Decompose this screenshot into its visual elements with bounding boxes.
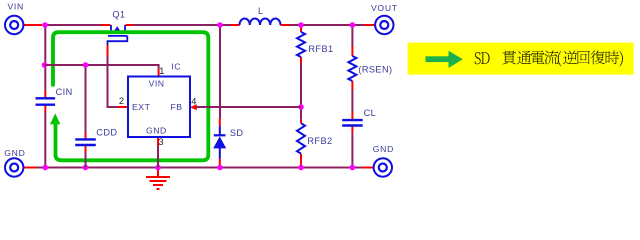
wire IC pin1 stub <box>158 69 160 77</box>
node VOUT RSEN junction <box>350 22 356 28</box>
svg-text:GND: GND <box>4 148 25 158</box>
label text glyph kanji <box>606 51 619 65</box>
svg-text:(RSEN): (RSEN) <box>358 65 392 75</box>
callout text D <box>481 52 490 64</box>
label text glyph paren-open <box>558 51 561 67</box>
label text glyph kanji <box>544 51 558 65</box>
diode SD <box>213 126 226 159</box>
wire IC ground redraw over loop <box>157 150 159 168</box>
wire bottom ground rail <box>36 167 362 169</box>
wire IC GND to bottom rail <box>157 146 159 168</box>
inductor L <box>240 18 281 25</box>
wire top rail Q1 to L <box>133 24 231 26</box>
node CDD tap junction <box>83 62 89 68</box>
svg-text:3: 3 <box>158 137 163 147</box>
resistor RSEN <box>348 56 356 81</box>
wire RSEN top stub <box>351 46 353 56</box>
svg-text:GND: GND <box>146 125 167 135</box>
wire CIN top stub <box>44 91 46 98</box>
pin 4 arrow into FB <box>190 104 197 110</box>
op-amp U1 IC body <box>128 77 190 138</box>
node ground CL junction <box>350 165 356 171</box>
svg-text:FB: FB <box>171 102 183 112</box>
wire CDD to bottom rail <box>85 153 87 168</box>
wire VIN feed redraw over loop <box>45 64 71 66</box>
wire RFB1 top stub <box>300 25 302 32</box>
svg-text:2: 2 <box>119 96 124 106</box>
node IC VIN tap junction <box>42 62 48 68</box>
wire FB net redraw over loop <box>196 106 301 108</box>
svg-text:RFB2: RFB2 <box>307 136 332 146</box>
current loop highlight <box>53 32 208 160</box>
label text glyph kanji <box>578 51 590 64</box>
capacitor CDD <box>75 139 96 145</box>
terminal VOUT <box>375 16 393 34</box>
callout text S <box>475 52 481 64</box>
label text glyph kanji <box>531 51 545 64</box>
node ground CDD junction <box>83 165 89 171</box>
label text glyph kanji <box>591 50 605 64</box>
svg-text:VOUT: VOUT <box>371 3 398 13</box>
svg-text:IC: IC <box>171 62 181 72</box>
label text glyph kanji <box>563 50 577 64</box>
callout kanji text <box>502 50 623 66</box>
wire Q1 drain stub <box>126 24 134 26</box>
label text glyph paren-close <box>619 51 622 67</box>
wire RSEN branch from output node <box>351 25 353 46</box>
wire IC VIN feed horizontal <box>45 65 159 69</box>
wire top rail L to VOUT <box>290 24 364 26</box>
svg-text:EXT: EXT <box>132 102 151 112</box>
wire diode cathode stub <box>219 118 221 126</box>
wire IC pin3 stub <box>157 137 159 146</box>
wire VOUT stub <box>364 24 375 26</box>
svg-text:VIN: VIN <box>149 78 165 88</box>
wire L right stub <box>281 24 291 26</box>
capacitor CIN <box>36 98 56 104</box>
svg-text:1: 1 <box>159 66 164 76</box>
wire RSEN to CL <box>351 90 353 112</box>
node ground diode junction <box>217 165 223 171</box>
transistor Q1 <box>108 25 129 45</box>
node ground RFB2 junction <box>298 165 304 171</box>
wire CL bottom stub <box>351 126 353 133</box>
wire RFB2 top stub <box>300 120 302 124</box>
wire RFB1 bottom stub <box>300 57 302 64</box>
wire FB net horizontal <box>196 106 302 108</box>
node ground CIN junction <box>43 165 49 171</box>
node switch diode junction <box>217 22 223 28</box>
wire Q1 source stub <box>101 24 111 26</box>
resistor RFB2 <box>297 123 305 153</box>
terminal VIN <box>5 16 23 34</box>
svg-text:GND: GND <box>373 144 394 154</box>
svg-text:Q1: Q1 <box>112 10 125 20</box>
wire RFB2 bottom stub <box>300 154 302 168</box>
wire CIN to bottom rail <box>44 112 46 168</box>
callout yellow box <box>408 43 634 75</box>
wire diode anode stub <box>219 159 221 168</box>
svg-text:4: 4 <box>191 97 196 107</box>
node ground IC junction <box>155 165 161 171</box>
wire CDD bottom stub <box>85 146 87 153</box>
capacitor CL <box>342 120 363 125</box>
wire CIN bottom stub <box>44 105 46 112</box>
wire top rail junction to Q1 <box>44 24 111 26</box>
wire IC pin2 stub <box>118 106 129 108</box>
wire VIN vertical rail <box>44 25 46 91</box>
wire Q1 gate stub <box>107 45 109 56</box>
callout green arrow <box>426 51 463 68</box>
node FB divider junction <box>298 104 304 110</box>
svg-text:SD: SD <box>230 128 244 138</box>
node VIN junction top <box>42 22 48 28</box>
wire RFB1 to FB node <box>300 64 302 108</box>
label text glyph kanji <box>517 51 531 65</box>
wire top rail VIN terminal to junction <box>23 24 42 26</box>
wire gate to EXT <box>108 56 118 107</box>
svg-text:CIN: CIN <box>56 87 73 97</box>
wire CDD top stub <box>85 133 87 139</box>
label text glyph kanji <box>502 51 516 65</box>
svg-text:CDD: CDD <box>96 127 117 137</box>
wire CDD branch vertical <box>85 65 87 133</box>
terminal GND left <box>5 158 23 176</box>
wire GND right terminal stub <box>362 167 374 169</box>
wire GND left terminal stub <box>23 167 36 169</box>
terminal GND right <box>374 158 392 176</box>
svg-text:CL: CL <box>364 108 377 118</box>
wire RSEN bottom stub <box>351 81 353 90</box>
wire CDD ground redraw over loop <box>85 153 87 168</box>
svg-text:RFB1: RFB1 <box>308 44 333 54</box>
wire L left stub <box>231 24 240 26</box>
resistor RFB1 <box>297 32 305 57</box>
wire CL to bottom rail <box>351 133 353 168</box>
wire CL top stub <box>351 112 353 119</box>
svg-text:VIN: VIN <box>8 1 24 11</box>
svg-text:L: L <box>258 6 264 16</box>
wire diode branch from switch node <box>219 25 221 118</box>
wire FB node to RFB2 <box>300 107 302 120</box>
node VOUT RFB1 junction <box>298 22 304 28</box>
current loop arrowhead <box>50 113 60 124</box>
ground symbol <box>146 168 170 190</box>
